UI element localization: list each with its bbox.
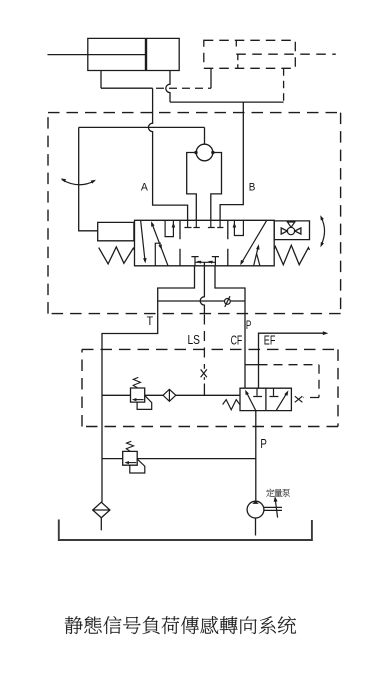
priority valve left flow arrow xyxy=(246,392,256,411)
orifice circle on cross line xyxy=(225,299,231,305)
column box mid dashed line xyxy=(236,53,335,55)
center cell top stub A xyxy=(184,220,191,227)
wire P port down xyxy=(215,266,245,388)
wire B branch down to valve xyxy=(220,102,243,220)
center cell LS bridge line xyxy=(195,261,215,263)
priority valve body xyxy=(240,388,291,410)
orifice diamond 2 xyxy=(163,389,176,401)
svg-text:P: P xyxy=(246,318,252,332)
valve left spring xyxy=(99,247,135,264)
tank outline xyxy=(59,520,312,541)
pump variable arrow xyxy=(275,500,277,518)
metering unit left outline xyxy=(187,153,197,221)
pump circle xyxy=(247,501,264,518)
wire pump to tank xyxy=(255,518,257,536)
wire cylinder left port to A xyxy=(101,87,153,89)
wire into motor xyxy=(204,127,206,144)
wire LS relief line left xyxy=(102,394,131,396)
priority valve dashed enclosure xyxy=(82,349,338,426)
priority valve right flow arrow xyxy=(276,392,287,410)
steering column dashed box xyxy=(204,40,295,68)
hydraulic cylinder body xyxy=(88,38,179,70)
relief valve 2 drain tail xyxy=(130,459,145,473)
left cell step line xyxy=(155,243,161,265)
dashed pilot line right xyxy=(259,365,320,398)
priority valve left stub xyxy=(253,388,262,396)
pilot X at valve side xyxy=(295,396,303,402)
left cell U stub with up arrow xyxy=(165,221,173,237)
left cell line 2 with arrows xyxy=(152,224,168,266)
center cell top stub B xyxy=(217,220,223,227)
wire T-P cross line xyxy=(158,300,245,302)
wire B-line down with jump xyxy=(166,71,170,103)
steering unit dashed enclosure xyxy=(48,113,341,314)
wire LS dashed pilot xyxy=(203,315,205,369)
cylinder rod xyxy=(48,54,147,56)
relief valve 2 arrow xyxy=(128,462,136,464)
wire feedback top line xyxy=(79,126,205,128)
LS orifice X xyxy=(201,369,207,377)
check symbol circle xyxy=(287,227,294,234)
priority valve spring xyxy=(223,400,240,410)
dashed link corner up xyxy=(210,68,212,88)
motor left dot xyxy=(194,151,197,154)
filter diamond xyxy=(93,502,110,518)
left cell line 1 with down arrow xyxy=(141,221,145,261)
center cell top stub leg1 xyxy=(193,220,199,227)
wire EF up and out with arrow xyxy=(259,333,325,388)
label pump 定量泵 xyxy=(266,489,274,497)
svg-text:EF: EF xyxy=(264,334,276,348)
check symbol left triangle xyxy=(281,228,287,234)
right cell short slant xyxy=(257,254,260,266)
wire CF pilot tap xyxy=(245,364,259,366)
motor right dot xyxy=(211,151,214,154)
dashed mechanical link from A junction xyxy=(156,87,211,89)
metering unit right outline xyxy=(211,153,222,221)
valve cell divider right xyxy=(227,220,229,265)
center cell top stub leg2 xyxy=(208,220,215,227)
valve pilot box left xyxy=(98,222,134,240)
wire LS down solid with jump xyxy=(200,262,204,314)
svg-text:B: B xyxy=(249,181,256,193)
wire filter to tank xyxy=(100,518,102,531)
column box inner tick xyxy=(235,40,237,46)
svg-text:T: T xyxy=(147,314,154,328)
wire cylinder left port down xyxy=(100,71,102,89)
center cell LS arrows xyxy=(197,261,202,264)
relief valve 2 spring xyxy=(126,441,133,451)
caption 静态信号负荷传感转向系统 xyxy=(65,616,83,634)
svg-text:A: A xyxy=(141,181,148,193)
svg-text:LS: LS xyxy=(188,333,201,347)
pump drive shaft xyxy=(264,507,282,510)
svg-text:P: P xyxy=(260,436,267,451)
orifice slash xyxy=(225,296,230,307)
rotation arrow arc xyxy=(321,218,324,245)
priority valve right stub xyxy=(270,388,279,396)
pump triangle xyxy=(252,501,259,504)
center cell bottom stub P xyxy=(212,257,219,266)
wire T port down xyxy=(102,266,195,502)
right cell mid line with up arrow xyxy=(254,247,259,266)
steering column line xyxy=(79,127,98,230)
valve envelope xyxy=(135,220,275,265)
steering wheel arrow arc xyxy=(62,180,95,185)
wire diamond to priority valve xyxy=(176,394,240,396)
wire priority valve to pump xyxy=(255,411,257,502)
column box mid vertical dashed xyxy=(237,54,239,68)
priority valve divider xyxy=(265,388,267,410)
right cell U stub with up arrow xyxy=(234,221,243,236)
wire relief to orifice diamond xyxy=(145,394,163,396)
valve right spring xyxy=(274,245,309,264)
wire B horizontal xyxy=(170,101,284,103)
check symbol top triangle xyxy=(287,222,294,227)
dashed link column box to B line xyxy=(283,68,285,102)
valve right box xyxy=(274,221,309,240)
check symbol right triangle xyxy=(295,228,301,234)
relief valve 1 spring xyxy=(133,377,140,388)
relief valve 1 arrow xyxy=(136,399,144,401)
center cell bottom stub T xyxy=(191,257,198,266)
relief valve 2 body xyxy=(123,451,138,465)
cylinder piston xyxy=(145,38,147,70)
relief valve 1 drain tail xyxy=(137,396,152,410)
right cell diagonal with down arrow xyxy=(242,221,267,263)
wire LS below orifice xyxy=(203,377,205,395)
metering motor circle xyxy=(196,144,213,161)
wire main relief line xyxy=(102,458,256,460)
svg-text:CF: CF xyxy=(231,334,243,348)
wire A-line down with jumps xyxy=(148,88,187,220)
relief valve 1 body xyxy=(131,388,145,402)
valve cell divider left xyxy=(179,220,181,265)
